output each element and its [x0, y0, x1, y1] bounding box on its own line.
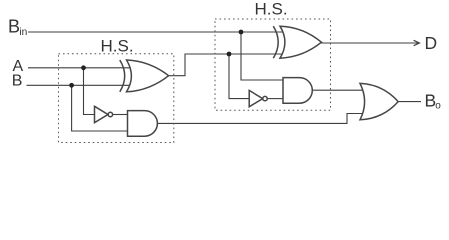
svg-text:H.S.: H.S. [255, 0, 288, 19]
wire AND1 output to OR lower input [158, 114, 367, 124]
wire OR output to Bo [398, 101, 421, 103]
wire Bin input [28, 31, 286, 33]
wire NOT2 output to AND2 lower input [267, 98, 283, 100]
AND gate HS2 (borrow) [283, 78, 312, 104]
wire diff1 to NOT2 [229, 54, 249, 99]
wire A input [28, 67, 133, 69]
node junction on B line [69, 83, 74, 88]
AND gate HS1 (borrow) [128, 111, 158, 137]
XOR gate HS1 (difference) [120, 60, 169, 92]
wire AND2 output to OR upper input [312, 89, 366, 91]
node junction on A line [81, 65, 86, 70]
wire XOR2 output to D [321, 42, 419, 44]
svg-text:B: B [12, 72, 23, 89]
wire NOT1 output to AND1 upper input [113, 114, 128, 116]
XOR gate HS2 (difference D) [273, 26, 321, 58]
OR gate (Bo) [360, 83, 398, 119]
wire A to NOT1 [84, 68, 95, 115]
svg-text:H.S.: H.S. [101, 37, 134, 56]
node junction on Bin line [239, 30, 244, 35]
svg-text:B: B [8, 17, 20, 37]
svg-text:in: in [19, 27, 27, 38]
svg-text:o: o [435, 101, 441, 112]
svg-text:D: D [425, 33, 438, 53]
wire Bin to AND2 upper input [241, 32, 283, 80]
dashed box HS1 [59, 54, 174, 143]
node junction on diff1 line [227, 52, 232, 57]
inverter NOT2 [249, 90, 267, 106]
inverter NOT1 [95, 106, 113, 122]
dashed box HS2 [215, 19, 331, 110]
arrowhead at D [414, 40, 420, 45]
wire B to AND1 lower input [72, 85, 128, 131]
wire B input [27, 84, 134, 86]
wire XOR1 output to XOR2 lower input [168, 54, 285, 76]
